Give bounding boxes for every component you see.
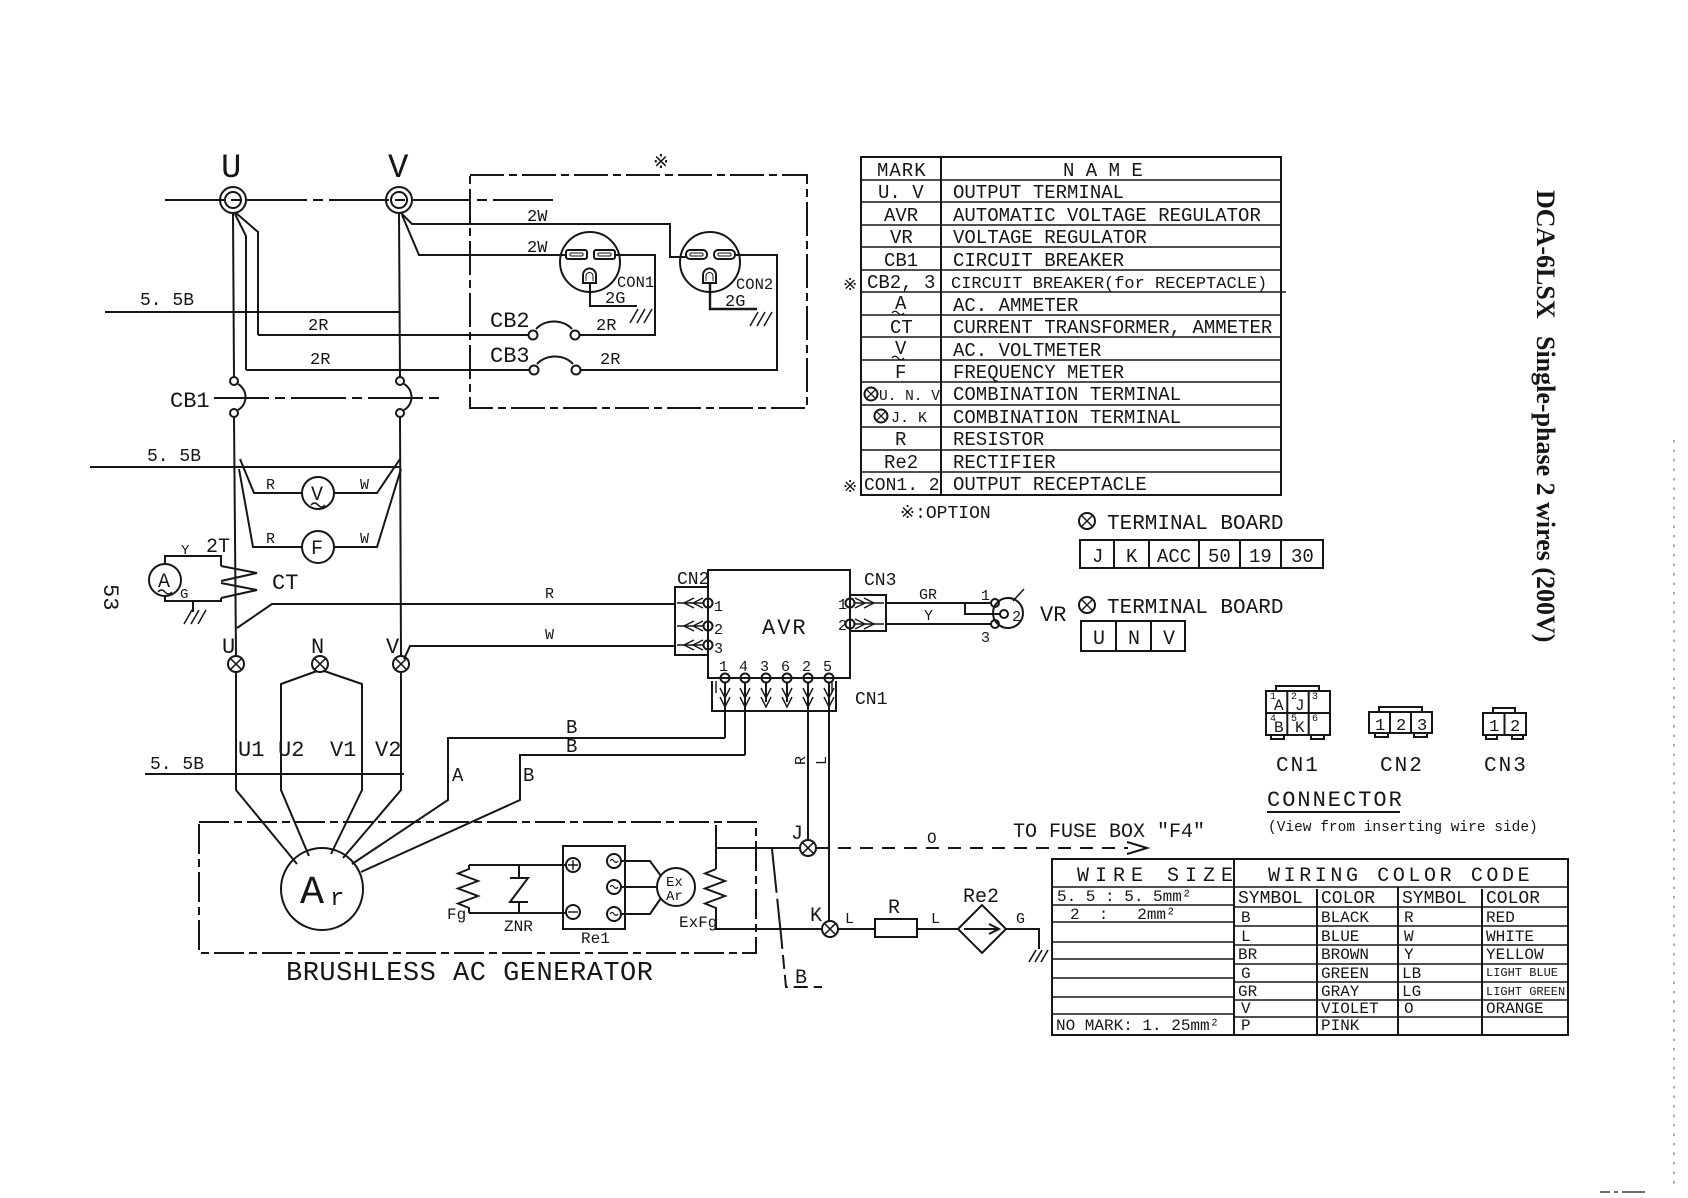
- wire U branch to 2R lower: [235, 214, 246, 370]
- svg-text:L: L: [931, 911, 940, 928]
- svg-text:5: 5: [823, 659, 832, 676]
- svg-text:YELLOW: YELLOW: [1486, 946, 1544, 964]
- pin CN1 1: [719, 659, 730, 738]
- wire Fg top to Re1: [469, 864, 566, 866]
- table color row gray light green: [1238, 983, 1565, 1001]
- table color row blue white: [1241, 928, 1534, 946]
- table color row violet orange: [1241, 1000, 1544, 1018]
- exciter armature ExAr: [657, 868, 695, 906]
- wire B to CN1 pin1: [352, 717, 725, 864]
- svg-text:K: K: [1126, 546, 1138, 568]
- svg-text:CB3: CB3: [490, 344, 530, 369]
- svg-text:1: 1: [1489, 718, 1499, 737]
- table color row brown yellow: [1238, 946, 1544, 964]
- wire U1 vertical: [236, 672, 297, 864]
- svg-text:J: J: [1092, 546, 1103, 568]
- svg-text:GR: GR: [1238, 983, 1258, 1001]
- svg-text:V1: V1: [330, 738, 356, 763]
- ammeter A: [149, 543, 221, 603]
- svg-text:3: 3: [981, 630, 990, 647]
- svg-text:COMBINATION TERMINAL: COMBINATION TERMINAL: [953, 384, 1181, 406]
- wire CON1 ground lead 2G: [590, 283, 637, 309]
- svg-text:2: 2: [1396, 717, 1406, 736]
- svg-text:2: 2: [838, 618, 847, 635]
- svg-text:5. 5B: 5. 5B: [140, 291, 194, 311]
- svg-text:2R: 2R: [600, 351, 620, 370]
- svg-text:SYMBOL: SYMBOL: [1238, 889, 1303, 909]
- option receptacle dashed box: [470, 175, 807, 408]
- node K: [810, 905, 838, 937]
- svg-text:BR: BR: [1238, 946, 1258, 964]
- wire GR CN3 to VR: [886, 587, 1000, 614]
- wire V drop to CB1: [399, 213, 400, 377]
- svg-text:U2: U2: [278, 738, 304, 763]
- node U output terminal: [220, 150, 246, 213]
- svg-text:F: F: [311, 538, 323, 561]
- wire CON2 ground lead 2G: [710, 283, 757, 312]
- svg-text:6: 6: [1312, 714, 1318, 725]
- wire U drop to CB1: [233, 213, 234, 377]
- winding N to U2: [281, 671, 317, 856]
- receptacle CON2: [680, 232, 773, 294]
- svg-text:WIRING COLOR CODE: WIRING COLOR CODE: [1268, 865, 1533, 888]
- svg-text:2W: 2W: [527, 239, 548, 258]
- svg-text:R: R: [266, 531, 275, 548]
- wire R from U to CN2 pin1: [237, 604, 676, 628]
- wire U vertical below CB1: [234, 417, 236, 656]
- transformer CT: [221, 566, 298, 598]
- terminal Re1 ac1: [607, 854, 621, 868]
- svg-text:Y: Y: [1404, 946, 1414, 964]
- wire Y CN3 to VR: [886, 608, 991, 625]
- svg-text:A: A: [452, 765, 464, 787]
- wire R to Re2: [917, 911, 958, 929]
- pin CN3 1: [838, 597, 884, 614]
- svg-text:R: R: [895, 429, 906, 451]
- svg-text:K: K: [810, 905, 822, 928]
- svg-text:V: V: [388, 150, 409, 188]
- svg-text:※: ※: [843, 479, 857, 498]
- svg-text:LG: LG: [1402, 983, 1421, 1001]
- svg-text:COLOR: COLOR: [1486, 889, 1540, 909]
- svg-text:B: B: [566, 736, 577, 758]
- voltmeter V: [240, 459, 400, 509]
- svg-text:MARK: MARK: [877, 160, 927, 182]
- svg-text:1: 1: [1375, 717, 1385, 736]
- svg-text:COLOR: COLOR: [1321, 889, 1375, 909]
- pin CN1 3: [760, 659, 771, 707]
- table MARK NAME row lines: [861, 180, 1286, 472]
- scan artifact bottom left dash: [1600, 1191, 1645, 1193]
- breaker CB2: [490, 309, 580, 340]
- table MARK NAME column divider: [940, 157, 942, 495]
- svg-text:COMBINATION TERMINAL: COMBINATION TERMINAL: [953, 407, 1181, 429]
- table color row black red: [1241, 909, 1515, 927]
- table header divider: [1052, 886, 1568, 888]
- pin CN1 4: [739, 659, 750, 755]
- svg-text:AUTOMATIC VOLTAGE REGULATOR: AUTOMATIC VOLTAGE REGULATOR: [953, 205, 1261, 227]
- resistor Fg: [447, 865, 478, 924]
- connector CN2 box: [675, 570, 709, 655]
- svg-text:R: R: [1404, 909, 1414, 927]
- svg-text:2G: 2G: [725, 293, 745, 312]
- svg-text:TO FUSE BOX "F4": TO FUSE BOX "F4": [1013, 821, 1205, 844]
- svg-text:3: 3: [1312, 692, 1318, 703]
- svg-text:LIGHT BLUE: LIGHT BLUE: [1486, 966, 1558, 980]
- label CONNECTOR underlined: [1267, 788, 1404, 813]
- wire Re1 to ExAr mid: [621, 886, 657, 888]
- svg-text:※: ※: [653, 152, 669, 174]
- svg-text:6: 6: [781, 659, 790, 676]
- svg-text:ORANGE: ORANGE: [1486, 1000, 1544, 1018]
- svg-text:CB1: CB1: [170, 389, 210, 414]
- svg-text:U. V: U. V: [878, 182, 924, 204]
- svg-text:CON2: CON2: [736, 276, 773, 294]
- potentiometer VR: [981, 588, 1066, 647]
- svg-text:2W: 2W: [527, 208, 548, 227]
- svg-text:r: r: [330, 886, 344, 913]
- wire V vertical below CB1: [400, 417, 401, 656]
- terminal board UNV heading: [1079, 597, 1283, 620]
- svg-text:F: F: [895, 362, 906, 384]
- svg-text:GREEN: GREEN: [1321, 965, 1369, 983]
- ground Re2: [1029, 950, 1048, 962]
- svg-text:※:OPTION: ※:OPTION: [900, 504, 991, 524]
- svg-text:BROWN: BROWN: [1321, 946, 1369, 964]
- svg-text:W: W: [360, 477, 369, 494]
- svg-text:BLACK: BLACK: [1321, 909, 1369, 927]
- svg-text:NO MARK: 1. 25mm²: NO MARK: 1. 25mm²: [1056, 1017, 1219, 1035]
- connector CN1 box: [712, 681, 887, 711]
- svg-text:R: R: [793, 756, 810, 765]
- wire CON1 right blade loop to CB2: [580, 255, 655, 335]
- generator armature circle A r: [281, 848, 363, 930]
- table wire size column divider: [1233, 859, 1235, 1035]
- svg-text:LIGHT GREEN: LIGHT GREEN: [1486, 985, 1565, 999]
- wire V branch to 2W lower: [402, 215, 567, 255]
- svg-text:B: B: [523, 765, 534, 787]
- svg-text:CB2: CB2: [490, 309, 530, 334]
- svg-text:2: 2: [1510, 718, 1520, 737]
- svg-text:Y: Y: [181, 543, 190, 559]
- svg-text:2G: 2G: [605, 290, 625, 309]
- svg-text:PINK: PINK: [1321, 1017, 1360, 1035]
- svg-text:J. K: J. K: [891, 410, 927, 427]
- svg-text:5. 5B: 5. 5B: [150, 755, 204, 775]
- svg-text:R: R: [266, 477, 275, 494]
- svg-text:2R: 2R: [310, 351, 330, 370]
- svg-text:CT: CT: [272, 571, 298, 596]
- svg-text:CN1: CN1: [855, 690, 887, 710]
- svg-text:VIOLET: VIOLET: [1321, 1000, 1379, 1018]
- svg-text:OUTPUT RECEPTACLE: OUTPUT RECEPTACLE: [953, 474, 1147, 496]
- pin CN1 2: [802, 659, 813, 840]
- ground CON2: [750, 312, 772, 326]
- svg-text:CN3: CN3: [864, 571, 896, 591]
- generator dashed box: [199, 822, 756, 953]
- wire Fg bottom to Re1: [469, 912, 566, 914]
- svg-text:U: U: [221, 150, 241, 188]
- wire terminal bus dash-dot line: [165, 199, 558, 201]
- pin CN2 3: [677, 640, 723, 658]
- svg-text:CON1. 2: CON1. 2: [864, 476, 940, 496]
- svg-text:※: ※: [843, 277, 857, 296]
- svg-text:30: 30: [1291, 546, 1314, 568]
- svg-text:3: 3: [760, 659, 769, 676]
- svg-text:19: 19: [1249, 546, 1272, 568]
- svg-text:VR: VR: [1040, 603, 1066, 628]
- svg-text:CIRCUIT BREAKER: CIRCUIT BREAKER: [953, 250, 1124, 272]
- pin CN1 5: [823, 659, 834, 921]
- table color row pink: [1241, 1017, 1360, 1035]
- svg-text:G: G: [1016, 911, 1025, 928]
- table color code row lines: [1234, 907, 1568, 1017]
- breaker CB3: [490, 344, 581, 375]
- svg-text:3: 3: [1417, 717, 1427, 736]
- svg-text:4: 4: [739, 659, 748, 676]
- svg-text:Ar: Ar: [666, 889, 683, 905]
- wire Re2 to ground G: [1006, 911, 1039, 949]
- svg-text:V: V: [1163, 628, 1175, 651]
- table color code column dividers: [1317, 887, 1482, 1035]
- wire ExFg top to J: [716, 825, 800, 869]
- connector CN2 pinout: [1369, 707, 1432, 778]
- pin CN1 6: [781, 659, 792, 707]
- svg-text:U1: U1: [238, 738, 264, 763]
- pin CN2 1: [677, 598, 723, 616]
- pin CN3 2: [838, 618, 884, 635]
- svg-text:WIRE SIZE: WIRE SIZE: [1077, 865, 1239, 888]
- svg-text:AC. AMMETER: AC. AMMETER: [953, 295, 1078, 317]
- wire 2R lower to CB3: [246, 369, 530, 371]
- svg-text:A: A: [1274, 697, 1284, 715]
- wire CB3 2R to CON2 right blade: [581, 255, 777, 370]
- wire K to R: [838, 911, 875, 929]
- node V combination terminal: [386, 635, 409, 672]
- frequency meter F: [239, 469, 401, 563]
- svg-text:CN2: CN2: [677, 570, 709, 590]
- svg-text:VOLTAGE REGULATOR: VOLTAGE REGULATOR: [953, 227, 1147, 249]
- svg-text:N A M E: N A M E: [1063, 160, 1143, 182]
- svg-text:2T: 2T: [206, 536, 230, 559]
- svg-text:1: 1: [981, 588, 990, 605]
- wire Re1 to ExAr top: [621, 861, 661, 876]
- svg-text:L: L: [814, 756, 831, 765]
- node V output terminal: [386, 150, 412, 213]
- terminal Re1 plus: [566, 858, 580, 872]
- wire 2R upper to CB2: [258, 334, 529, 336]
- svg-text:O: O: [1404, 1000, 1414, 1018]
- svg-text:RED: RED: [1486, 909, 1515, 927]
- table row UNV combination terminal: [865, 384, 1182, 406]
- svg-text:5. 5 : 5. 5mm²: 5. 5 : 5. 5mm²: [1057, 888, 1191, 906]
- node U combination terminal: [222, 635, 244, 672]
- terminal Re1 ac3: [607, 907, 621, 921]
- svg-text:CN1: CN1: [1276, 755, 1320, 778]
- pin CN2 2: [677, 621, 723, 639]
- svg-text:(View from inserting wire side: (View from inserting wire side): [1268, 820, 1538, 836]
- svg-text:53: 53: [97, 584, 122, 610]
- svg-text:P: P: [1241, 1017, 1251, 1035]
- ground CON1: [630, 309, 652, 323]
- svg-text:Single-phase 2 wires (200V): Single-phase 2 wires (200V): [1531, 336, 1560, 642]
- rectifier Re2 diamond: [958, 886, 1006, 953]
- winding N to V1: [324, 671, 362, 854]
- wire V branch to 2W upper: [401, 213, 687, 257]
- scan artifact right margin dotted line: [1673, 440, 1675, 1190]
- svg-text:V: V: [1241, 1000, 1251, 1018]
- svg-text:1: 1: [714, 599, 723, 616]
- svg-text:O: O: [927, 830, 937, 848]
- svg-text:3: 3: [714, 641, 723, 658]
- svg-text:W: W: [360, 531, 369, 548]
- terminal board JK cells: [1080, 540, 1323, 568]
- resistor R: [875, 897, 917, 937]
- svg-text:K: K: [1295, 719, 1305, 737]
- resistor ExFg: [679, 869, 725, 932]
- svg-text:TERMINAL BOARD: TERMINAL BOARD: [1107, 597, 1283, 620]
- table color code subheader: [1238, 889, 1540, 909]
- svg-text:B: B: [1241, 909, 1251, 927]
- table wire size rows: [1052, 888, 1234, 1035]
- wire B branch from J: [772, 849, 822, 990]
- svg-text:AVR: AVR: [884, 205, 918, 227]
- ground for ammeter: [184, 601, 206, 624]
- svg-text:LB: LB: [1402, 965, 1421, 983]
- svg-text:Y: Y: [924, 608, 933, 625]
- svg-text:1: 1: [719, 659, 728, 676]
- svg-text:W: W: [1404, 928, 1414, 946]
- svg-text:Re1: Re1: [581, 930, 610, 948]
- svg-text:GRAY: GRAY: [1321, 983, 1360, 1001]
- svg-text:L: L: [1241, 928, 1251, 946]
- wire U branch to 2R upper: [236, 213, 258, 335]
- svg-text:2: 2: [714, 622, 723, 639]
- svg-text:50: 50: [1208, 546, 1231, 568]
- svg-text:R: R: [545, 586, 554, 603]
- svg-text:CN2: CN2: [1380, 755, 1424, 778]
- svg-text:CB2, 3: CB2, 3: [867, 272, 935, 294]
- connector CN1 pinout: [1266, 686, 1330, 778]
- svg-text:5. 5B: 5. 5B: [147, 447, 201, 467]
- svg-text:DCA-6LSX: DCA-6LSX: [1531, 190, 1560, 319]
- wire Re1 to ExAr bottom: [621, 898, 661, 914]
- svg-text:G: G: [180, 587, 188, 603]
- wire V2 vertical: [343, 672, 401, 858]
- svg-text:B: B: [1274, 719, 1284, 737]
- svg-text:BLUE: BLUE: [1321, 928, 1359, 946]
- table row JK combination terminal: [875, 407, 1182, 429]
- svg-text:CONNECTOR: CONNECTOR: [1267, 788, 1404, 813]
- terminal Re1 minus: [566, 905, 580, 919]
- svg-text:A: A: [300, 871, 324, 916]
- varistor ZNR: [504, 865, 533, 936]
- svg-text:WHITE: WHITE: [1486, 928, 1534, 946]
- connector CN3 box: [850, 571, 896, 631]
- breaker CB1: [170, 377, 443, 417]
- svg-text:2R: 2R: [596, 317, 616, 336]
- svg-text:Re2: Re2: [963, 886, 999, 909]
- svg-text:ACC: ACC: [1157, 546, 1191, 568]
- svg-text:J: J: [1295, 697, 1305, 715]
- table MARK NAME outer frame: [861, 157, 1281, 495]
- svg-text:CIRCUIT BREAKER(for RECEPTACLE: CIRCUIT BREAKER(for RECEPTACLE): [951, 275, 1267, 294]
- svg-text:CURRENT TRANSFORMER, AMMETER: CURRENT TRANSFORMER, AMMETER: [953, 317, 1272, 339]
- table color row green light blue: [1241, 965, 1558, 983]
- svg-text:CN3: CN3: [1484, 755, 1528, 778]
- svg-text:2 : 2mm²: 2 : 2mm²: [1070, 906, 1176, 924]
- svg-text:FREQUENCY METER: FREQUENCY METER: [953, 362, 1124, 384]
- wire ExFg bottom to K: [716, 913, 822, 929]
- svg-text:N: N: [1128, 628, 1140, 651]
- svg-text:VR: VR: [890, 227, 913, 249]
- svg-text:B: B: [795, 967, 807, 990]
- table wire size and color code outer frame: [1052, 859, 1568, 1035]
- svg-text:CT: CT: [890, 317, 913, 339]
- wire O dashed to fuse box: [816, 830, 1147, 854]
- svg-text:2R: 2R: [308, 317, 328, 336]
- svg-text:Re2: Re2: [884, 452, 918, 474]
- svg-text:CB1: CB1: [884, 250, 918, 272]
- svg-text:GR: GR: [919, 587, 937, 604]
- svg-text:U. N. V: U. N. V: [879, 389, 940, 405]
- svg-text:W: W: [545, 627, 554, 644]
- rectifier Re1 box: [563, 846, 625, 948]
- svg-text:1: 1: [838, 597, 847, 614]
- svg-text:V2: V2: [375, 738, 401, 763]
- svg-text:RECTIFIER: RECTIFIER: [953, 452, 1056, 474]
- svg-text:R: R: [888, 897, 900, 920]
- terminal Re1 ac2: [607, 880, 621, 894]
- svg-text:L: L: [845, 911, 854, 928]
- svg-text:SYMBOL: SYMBOL: [1402, 889, 1467, 909]
- svg-text:AVR: AVR: [762, 616, 808, 641]
- svg-text:TERMINAL BOARD: TERMINAL BOARD: [1107, 513, 1283, 536]
- node N combination terminal: [311, 635, 328, 672]
- svg-text:ZNR: ZNR: [504, 918, 533, 936]
- connector CN3 pinout: [1483, 708, 1528, 778]
- svg-text:2: 2: [802, 659, 811, 676]
- terminal board JK heading: [1079, 513, 1283, 536]
- node J: [791, 823, 816, 856]
- svg-text:RESISTOR: RESISTOR: [953, 429, 1044, 451]
- svg-text:AC. VOLTMETER: AC. VOLTMETER: [953, 340, 1101, 362]
- svg-text:U: U: [1093, 628, 1105, 651]
- svg-text:2: 2: [1012, 609, 1021, 626]
- svg-text:G: G: [1241, 965, 1251, 983]
- op-amp AVR box: [708, 570, 850, 678]
- svg-text:OUTPUT TERMINAL: OUTPUT TERMINAL: [953, 182, 1124, 204]
- svg-text:Fg: Fg: [447, 906, 466, 924]
- wire B to CN1 pin4: [361, 736, 745, 872]
- svg-text:ExFg: ExFg: [679, 914, 717, 932]
- wire W from V to CN2 pin3: [404, 646, 676, 659]
- terminal board UNV cells: [1081, 621, 1185, 651]
- receptacle CON1: [560, 232, 654, 292]
- svg-text:BRUSHLESS AC GENERATOR: BRUSHLESS AC GENERATOR: [286, 959, 653, 989]
